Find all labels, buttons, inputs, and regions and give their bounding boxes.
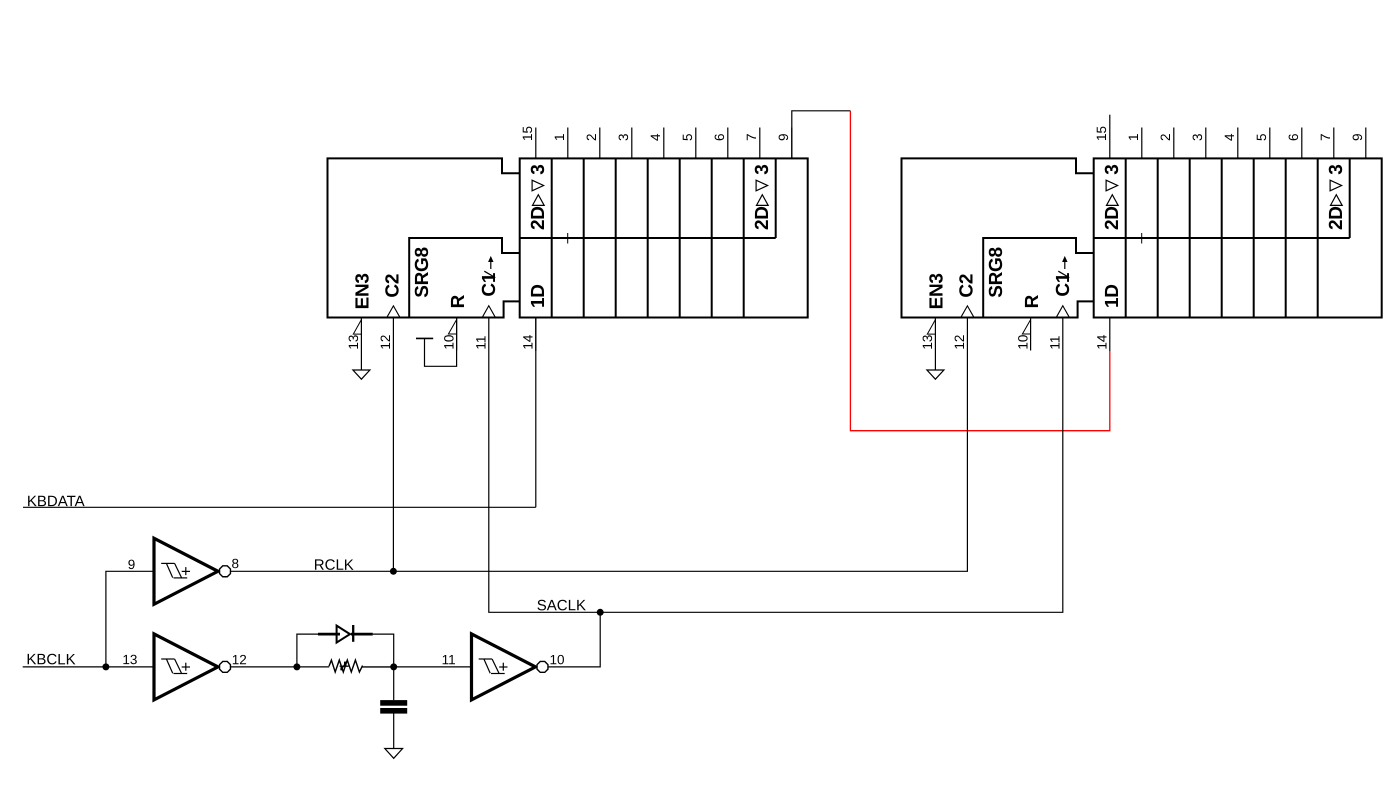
svg-text:13: 13	[122, 652, 137, 667]
svg-text:KBCLK: KBCLK	[26, 651, 75, 668]
svg-text:10: 10	[549, 652, 564, 667]
svg-text:9: 9	[128, 557, 136, 572]
svg-text:RCLK: RCLK	[314, 557, 354, 574]
svg-text:11: 11	[442, 652, 456, 667]
svg-text:8: 8	[231, 556, 239, 571]
svg-text:12: 12	[232, 652, 247, 667]
svg-text:KBDATA: KBDATA	[27, 493, 85, 510]
svg-text:SACLK: SACLK	[537, 597, 586, 614]
